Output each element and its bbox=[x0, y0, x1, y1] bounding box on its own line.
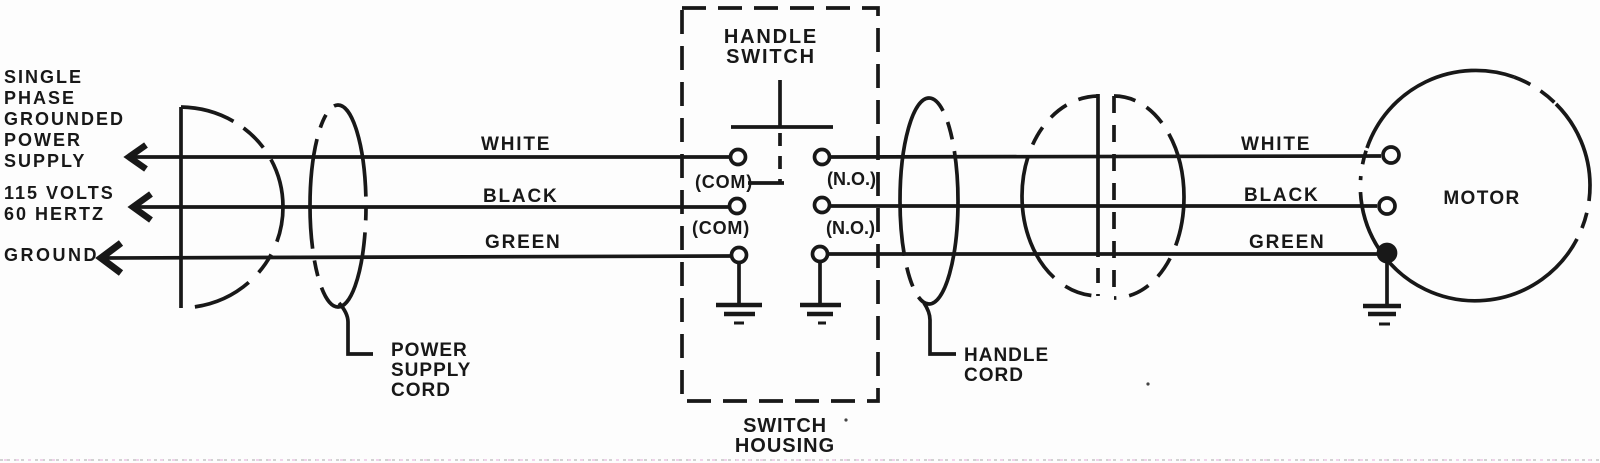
svg-text:SWITCH: SWITCH bbox=[726, 46, 816, 68]
arrow ground wire bbox=[101, 243, 121, 273]
svg-text:CORD: CORD bbox=[964, 365, 1024, 386]
svg-text:WHITE: WHITE bbox=[1241, 134, 1311, 155]
svg-text:POWER: POWER bbox=[4, 130, 82, 150]
svg-text:SWITCH: SWITCH bbox=[743, 415, 827, 437]
svg-text:SINGLE: SINGLE bbox=[4, 67, 83, 87]
label: HANDLE SWITCH bbox=[724, 26, 818, 68]
switch housing dashed box bbox=[682, 8, 878, 401]
svg-text:PHASE: PHASE bbox=[4, 88, 76, 108]
handle cord leader bbox=[924, 303, 956, 354]
handle plug socket arc bbox=[1022, 96, 1098, 296]
arrow black wire bbox=[133, 194, 151, 220]
wire white left bbox=[131, 155, 729, 159]
motor circle dashed top-right bbox=[1514, 77, 1556, 104]
wire black left bbox=[135, 205, 728, 209]
label: SWITCH HOUSING bbox=[735, 415, 835, 457]
svg-text:SUPPLY: SUPPLY bbox=[4, 151, 86, 171]
motor circle dashed left black-white bbox=[1360, 148, 1367, 206]
svg-text:HOUSING: HOUSING bbox=[735, 435, 835, 457]
ground symbol right in housing bbox=[800, 261, 841, 323]
switch contact line bbox=[748, 181, 784, 185]
scan speck near switch housing label bbox=[844, 418, 847, 421]
svg-text:(N.O.): (N.O.) bbox=[826, 218, 875, 238]
motor terminal black bbox=[1379, 198, 1395, 214]
svg-text:GROUNDED: GROUNDED bbox=[4, 109, 125, 129]
motor circle dashed right-lower bbox=[1577, 185, 1590, 239]
motor plug D arc bbox=[1114, 96, 1184, 298]
power plug D arc bbox=[181, 107, 283, 308]
terminal COM row2 bbox=[730, 199, 745, 214]
wire green left bbox=[103, 256, 730, 258]
power cord ellipse bbox=[310, 105, 366, 307]
terminal COM row1 bbox=[731, 150, 746, 165]
svg-text:MOTOR: MOTOR bbox=[1443, 188, 1520, 209]
switch plunger stem bbox=[778, 80, 782, 127]
scan artifact bottom dotted line gray bbox=[0, 459, 1600, 461]
svg-text:SUPPLY: SUPPLY bbox=[391, 360, 471, 381]
handle plug socket flat edge lower dashed bbox=[1096, 242, 1100, 296]
motor circle solid top-left bbox=[1367, 70, 1514, 148]
svg-text:GREEN: GREEN bbox=[485, 232, 562, 253]
terminal NO row1 bbox=[815, 150, 830, 165]
svg-text:60 HERTZ: 60 HERTZ bbox=[4, 204, 105, 224]
svg-text:(COM): (COM) bbox=[695, 172, 753, 192]
switch plunger dashed link bbox=[778, 133, 782, 183]
label: HANDLE CORD bbox=[964, 345, 1049, 386]
terminal ground left row3 bbox=[732, 248, 747, 263]
handle plug socket flat edge bbox=[1096, 94, 1100, 242]
scan artifact bottom dotted line pink bbox=[4, 459, 1600, 461]
handle cord ellipse bbox=[900, 98, 958, 304]
arrow white wire bbox=[129, 145, 146, 169]
svg-text:CORD: CORD bbox=[391, 380, 451, 401]
svg-text:(N.O.): (N.O.) bbox=[827, 169, 876, 189]
motor ground symbol bbox=[1363, 261, 1401, 324]
svg-text:BLACK: BLACK bbox=[483, 186, 559, 207]
label: POWER SUPPLY CORD bbox=[391, 340, 471, 401]
switch actuator bar bbox=[731, 125, 833, 129]
motor circle solid right bbox=[1556, 104, 1590, 185]
wire white right (switch to motor) bbox=[831, 156, 1381, 157]
motor terminal white bbox=[1383, 147, 1399, 163]
motor circle solid bottom bbox=[1384, 239, 1577, 301]
svg-text:GROUND: GROUND bbox=[4, 245, 99, 265]
wire green right bbox=[829, 252, 1387, 256]
power plug flat edge bbox=[179, 107, 183, 308]
motor terminal green junction dot bbox=[1379, 245, 1396, 262]
wire black right bbox=[831, 204, 1377, 208]
svg-text:POWER: POWER bbox=[391, 340, 468, 361]
terminal NO row2 bbox=[815, 198, 830, 213]
svg-text:WHITE: WHITE bbox=[481, 134, 551, 155]
svg-text:115 VOLTS: 115 VOLTS bbox=[4, 183, 115, 203]
svg-text:BLACK: BLACK bbox=[1244, 185, 1320, 206]
label: 115 VOLTS 60 HERTZ bbox=[4, 183, 115, 224]
label: SINGLE PHASE GROUNDED POWER SUPPLY bbox=[4, 67, 125, 171]
svg-text:(COM): (COM) bbox=[692, 218, 750, 238]
motor circle solid left green-black bbox=[1362, 206, 1384, 256]
svg-text:HANDLE: HANDLE bbox=[724, 26, 818, 48]
scan speck below handle plug bbox=[1146, 382, 1149, 385]
ground symbol left in housing bbox=[716, 262, 762, 323]
label: GROUND bbox=[4, 245, 99, 265]
svg-text:HANDLE: HANDLE bbox=[964, 345, 1049, 366]
terminal ground right row3 bbox=[813, 247, 828, 262]
power cord leader bbox=[339, 303, 373, 354]
motor plug flat edge dashed bbox=[1112, 96, 1116, 298]
svg-text:GREEN: GREEN bbox=[1249, 232, 1326, 253]
